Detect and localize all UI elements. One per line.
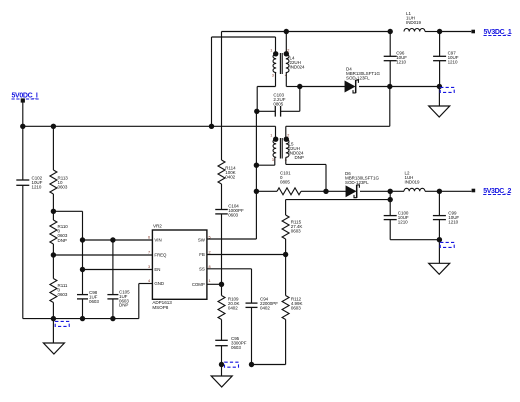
svg-text:R11100603: R11100603: [58, 283, 68, 297]
ground net tie output1 (dashed): [440, 87, 454, 92]
op-amp U1 regulator VR2 ADP1613 body: [152, 223, 207, 310]
junction C97 bottom / ground: [437, 84, 442, 89]
junction D6 cathode / C100: [388, 189, 393, 194]
junction C101 / L5 pin4 / D6: [323, 189, 328, 194]
capacitor C103: [257, 87, 300, 117]
svg-text:C1041000PF0603: C1041000PF0603: [228, 203, 244, 217]
svg-text:SW: SW: [198, 238, 206, 243]
junction ground rail C98: [80, 316, 85, 321]
pin VIN name: [154, 238, 161, 243]
svg-text:3: 3: [148, 265, 150, 269]
ground net tie output2 (dashed): [440, 242, 454, 247]
svg-text:ADP1613MSOP8: ADP1613MSOP8: [152, 300, 172, 310]
wire L4 pin4 to D4 anode: [286, 73, 345, 87]
inductor L2: [404, 170, 439, 191]
pin FB name: [199, 252, 205, 257]
junction ground rail C105: [110, 316, 115, 321]
junction L1 out / C97: [437, 29, 442, 34]
svg-text:3: 3: [272, 158, 274, 162]
wire COMP pin line: [207, 283, 222, 285]
capacitor C98: [77, 240, 99, 319]
wire GND pin line: [139, 284, 153, 319]
junction COMP: [219, 282, 224, 287]
svg-text:C10100805: C10100805: [280, 170, 291, 184]
svg-text:VIN: VIN: [154, 238, 161, 243]
pin number 2: [209, 251, 211, 255]
junction SW at L5 pin3: [254, 163, 259, 168]
wire L4 pin2 riser: [285, 32, 287, 55]
junction L5 pin2: [284, 137, 289, 142]
svg-text:R113100603: R113100603: [58, 176, 69, 190]
ground symbol comp network: [211, 365, 232, 388]
diode D6 MBR130LSFT1G: [345, 171, 390, 198]
junction FB / R115 / R112: [283, 252, 288, 257]
svg-text:4: 4: [148, 279, 150, 283]
wire input pin to VIN rail: [22, 102, 24, 126]
pin SS name: [199, 266, 205, 271]
svg-text:DNP: DNP: [295, 155, 304, 160]
wire SW pin riser: [207, 111, 257, 239]
wire EN pin line: [83, 269, 153, 271]
junction R113/R110: [51, 209, 56, 214]
pin number L5-3: [272, 158, 274, 162]
svg-text:1: 1: [270, 48, 272, 52]
ground net tie comp (dashed): [225, 362, 239, 367]
junction VIN rail at R113: [51, 124, 56, 129]
svg-text:GND: GND: [154, 281, 164, 286]
junction L4 pin1: [273, 51, 278, 56]
junction VIN rail at L4 feed: [209, 124, 214, 129]
junction SW at C101: [254, 189, 259, 194]
junction ground rail R111: [51, 316, 56, 321]
pin GND name: [154, 281, 164, 286]
node output2 net label: [483, 188, 511, 195]
svg-text:R11000603DNP: R11000603DNP: [58, 224, 69, 243]
junction VIN at C98: [80, 237, 85, 242]
pin number 8: [209, 265, 211, 269]
wire SW feedback top rail: [222, 31, 391, 33]
pin number 1: [209, 279, 211, 283]
pin number 5: [209, 236, 211, 240]
transformer L5 windings: [273, 138, 304, 160]
pin number L5-4: [285, 158, 287, 162]
junction R110/R111 FREQ: [51, 252, 56, 257]
svg-text:R11527.4K0603: R11527.4K0603: [291, 219, 303, 233]
wire FREQ pin line: [53, 254, 152, 256]
svg-text:D6MBR130LSFT1GSOD-123FL: D6MBR130LSFT1GSOD-123FL: [345, 171, 379, 185]
resistor R113: [50, 126, 68, 211]
diode D4 MBR130LSFT1G: [345, 66, 390, 93]
capacitor C105: [107, 240, 130, 319]
junction C99 / C100 ground: [437, 237, 442, 242]
svg-text:1: 1: [209, 279, 211, 283]
capacitor C96: [384, 32, 408, 87]
svg-text:2: 2: [287, 48, 289, 52]
junction VIN rail at C102: [20, 124, 25, 129]
capacitor C102: [16, 126, 42, 318]
junction L4 pin2: [284, 51, 289, 56]
pin COMP name: [192, 282, 205, 287]
junction L2 out / C99: [437, 189, 442, 194]
capacitor C104: [215, 203, 244, 284]
junction C94 ground: [249, 362, 254, 367]
resistor R109: [218, 284, 239, 340]
svg-text:6: 6: [148, 236, 150, 240]
resistor R115: [282, 215, 302, 255]
wire L5 pin1 riser: [275, 126, 277, 139]
wire VIN pin line: [83, 239, 153, 241]
wire FB pin line: [207, 254, 286, 256]
pin number 7: [148, 251, 150, 255]
svg-text:L422UHIND024: L422UHIND024: [290, 56, 306, 70]
svg-text:2: 2: [209, 251, 211, 255]
wire L1 to output1 pin: [440, 31, 472, 33]
pin number L4-2: [287, 48, 289, 52]
resistor R111: [50, 255, 68, 319]
pin number L4-4: [285, 74, 287, 78]
junction top rail / C96 / L1: [388, 29, 393, 34]
junction comp ground: [219, 362, 224, 367]
svg-text:C953300PF0603: C953300PF0603: [231, 336, 247, 350]
wire L4 pin3 to SW node: [257, 73, 275, 112]
pin number L4-3: [272, 74, 274, 78]
svg-text:FREQ: FREQ: [154, 253, 167, 258]
junction D4 cathode / C96: [387, 84, 392, 89]
junction sense at C100: [388, 197, 393, 202]
wire secondary return drop: [286, 87, 390, 140]
junction top rail at L4 pin2: [284, 29, 289, 34]
svg-text:R10920.0K0402: R10920.0K0402: [228, 296, 240, 310]
svg-text:C9910UF1210: C9910UF1210: [448, 211, 459, 225]
junction VIN at C105: [110, 237, 115, 242]
pin number 6: [148, 236, 150, 240]
output1 port pin: [471, 30, 475, 34]
wire VIN rail: [23, 125, 276, 127]
transformer L4 windings: [273, 53, 305, 74]
svg-text:COMP: COMP: [192, 282, 205, 287]
svg-text:R114100K0402: R114100K0402: [225, 165, 236, 179]
svg-text:3: 3: [272, 74, 274, 78]
output2 port pin: [472, 189, 476, 193]
svg-text:C1051UF0603DNP: C1051UF0603DNP: [119, 290, 130, 308]
node 5V0 input net label: [12, 93, 40, 100]
svg-text:D4MBR130LSFT1GSOD-123FL: D4MBR130LSFT1GSOD-123FL: [346, 66, 380, 80]
wire R113 bottom to VIN pin branch: [53, 211, 82, 240]
wire L5 pin4 to D6 anode node: [286, 157, 326, 191]
ground symbol input section: [43, 319, 64, 354]
capacitor C99: [433, 191, 460, 239]
capacitor C97: [433, 32, 459, 87]
capacitor C100: [384, 191, 440, 239]
wire D6 cathode to L2: [390, 190, 404, 192]
svg-text:L522UHIND024: L522UHIND024: [289, 141, 305, 155]
svg-text:C10210UF1210: C10210UF1210: [32, 176, 43, 190]
wire L5 pin3 to SW: [256, 157, 274, 165]
wire R115 sense line: [286, 200, 391, 215]
svg-text:2: 2: [287, 133, 289, 137]
wire VIN branch to L4 pin1: [212, 37, 276, 126]
svg-text:L21UHIND019: L21UHIND019: [405, 170, 421, 184]
wire L2 to output2 pin: [439, 190, 471, 192]
svg-text:VR2: VR2: [153, 223, 162, 228]
junction EN at C98 branch: [80, 267, 85, 272]
ground net tie input (dashed): [55, 321, 69, 326]
pin number L5-1: [270, 133, 272, 137]
svg-text:C10010UF1210: C10010UF1210: [398, 211, 409, 225]
ground symbol output2: [429, 240, 450, 275]
resistor C101 0 ohm: [256, 170, 326, 195]
wire ground rail left: [23, 318, 139, 320]
input port pin: [21, 98, 25, 102]
capacitor C95: [215, 336, 247, 365]
pin EN name: [154, 267, 160, 272]
svg-text:C981UF0603: C981UF0603: [89, 290, 99, 304]
node output1 net label: [484, 29, 512, 36]
capacitor C94: [246, 296, 279, 364]
wire to D6 anode: [326, 190, 346, 192]
svg-text:C9610UF1210: C9610UF1210: [396, 51, 407, 65]
wire SS pin line: [207, 269, 252, 303]
resistor R114: [218, 160, 236, 209]
resistor R112: [252, 255, 303, 365]
svg-text:EN: EN: [154, 267, 160, 272]
svg-text:FB: FB: [199, 252, 205, 257]
svg-text:C9422000PF0402: C9422000PF0402: [260, 296, 278, 310]
svg-text:C1032.2UF0805: C1032.2UF0805: [273, 93, 285, 107]
svg-text:L11UHIND019: L11UHIND019: [406, 11, 422, 25]
svg-text:1: 1: [270, 133, 272, 137]
junction L4 pin4 / C103 / D4: [297, 84, 302, 89]
svg-text:7: 7: [148, 251, 150, 255]
junction SW at C103: [254, 109, 259, 114]
svg-text:C9710UF1210: C9710UF1210: [448, 51, 459, 65]
pin number L5-2: [287, 133, 289, 137]
svg-text:R1124.99K0603: R1124.99K0603: [291, 296, 303, 310]
pin SW name: [198, 238, 206, 243]
pin FREQ name: [154, 253, 167, 258]
pin number 4: [148, 279, 150, 283]
wire top rail drop to R114: [221, 32, 223, 161]
pin number 3: [148, 265, 150, 269]
pin number L4-1: [270, 48, 272, 52]
wire D4 cathode to C97 gnd node: [390, 86, 440, 88]
ground symbol output1: [429, 87, 450, 118]
resistor R110: [50, 211, 68, 255]
junction L5 pin1: [273, 137, 278, 142]
svg-text:SS: SS: [199, 266, 205, 271]
inductor L1: [404, 11, 440, 32]
